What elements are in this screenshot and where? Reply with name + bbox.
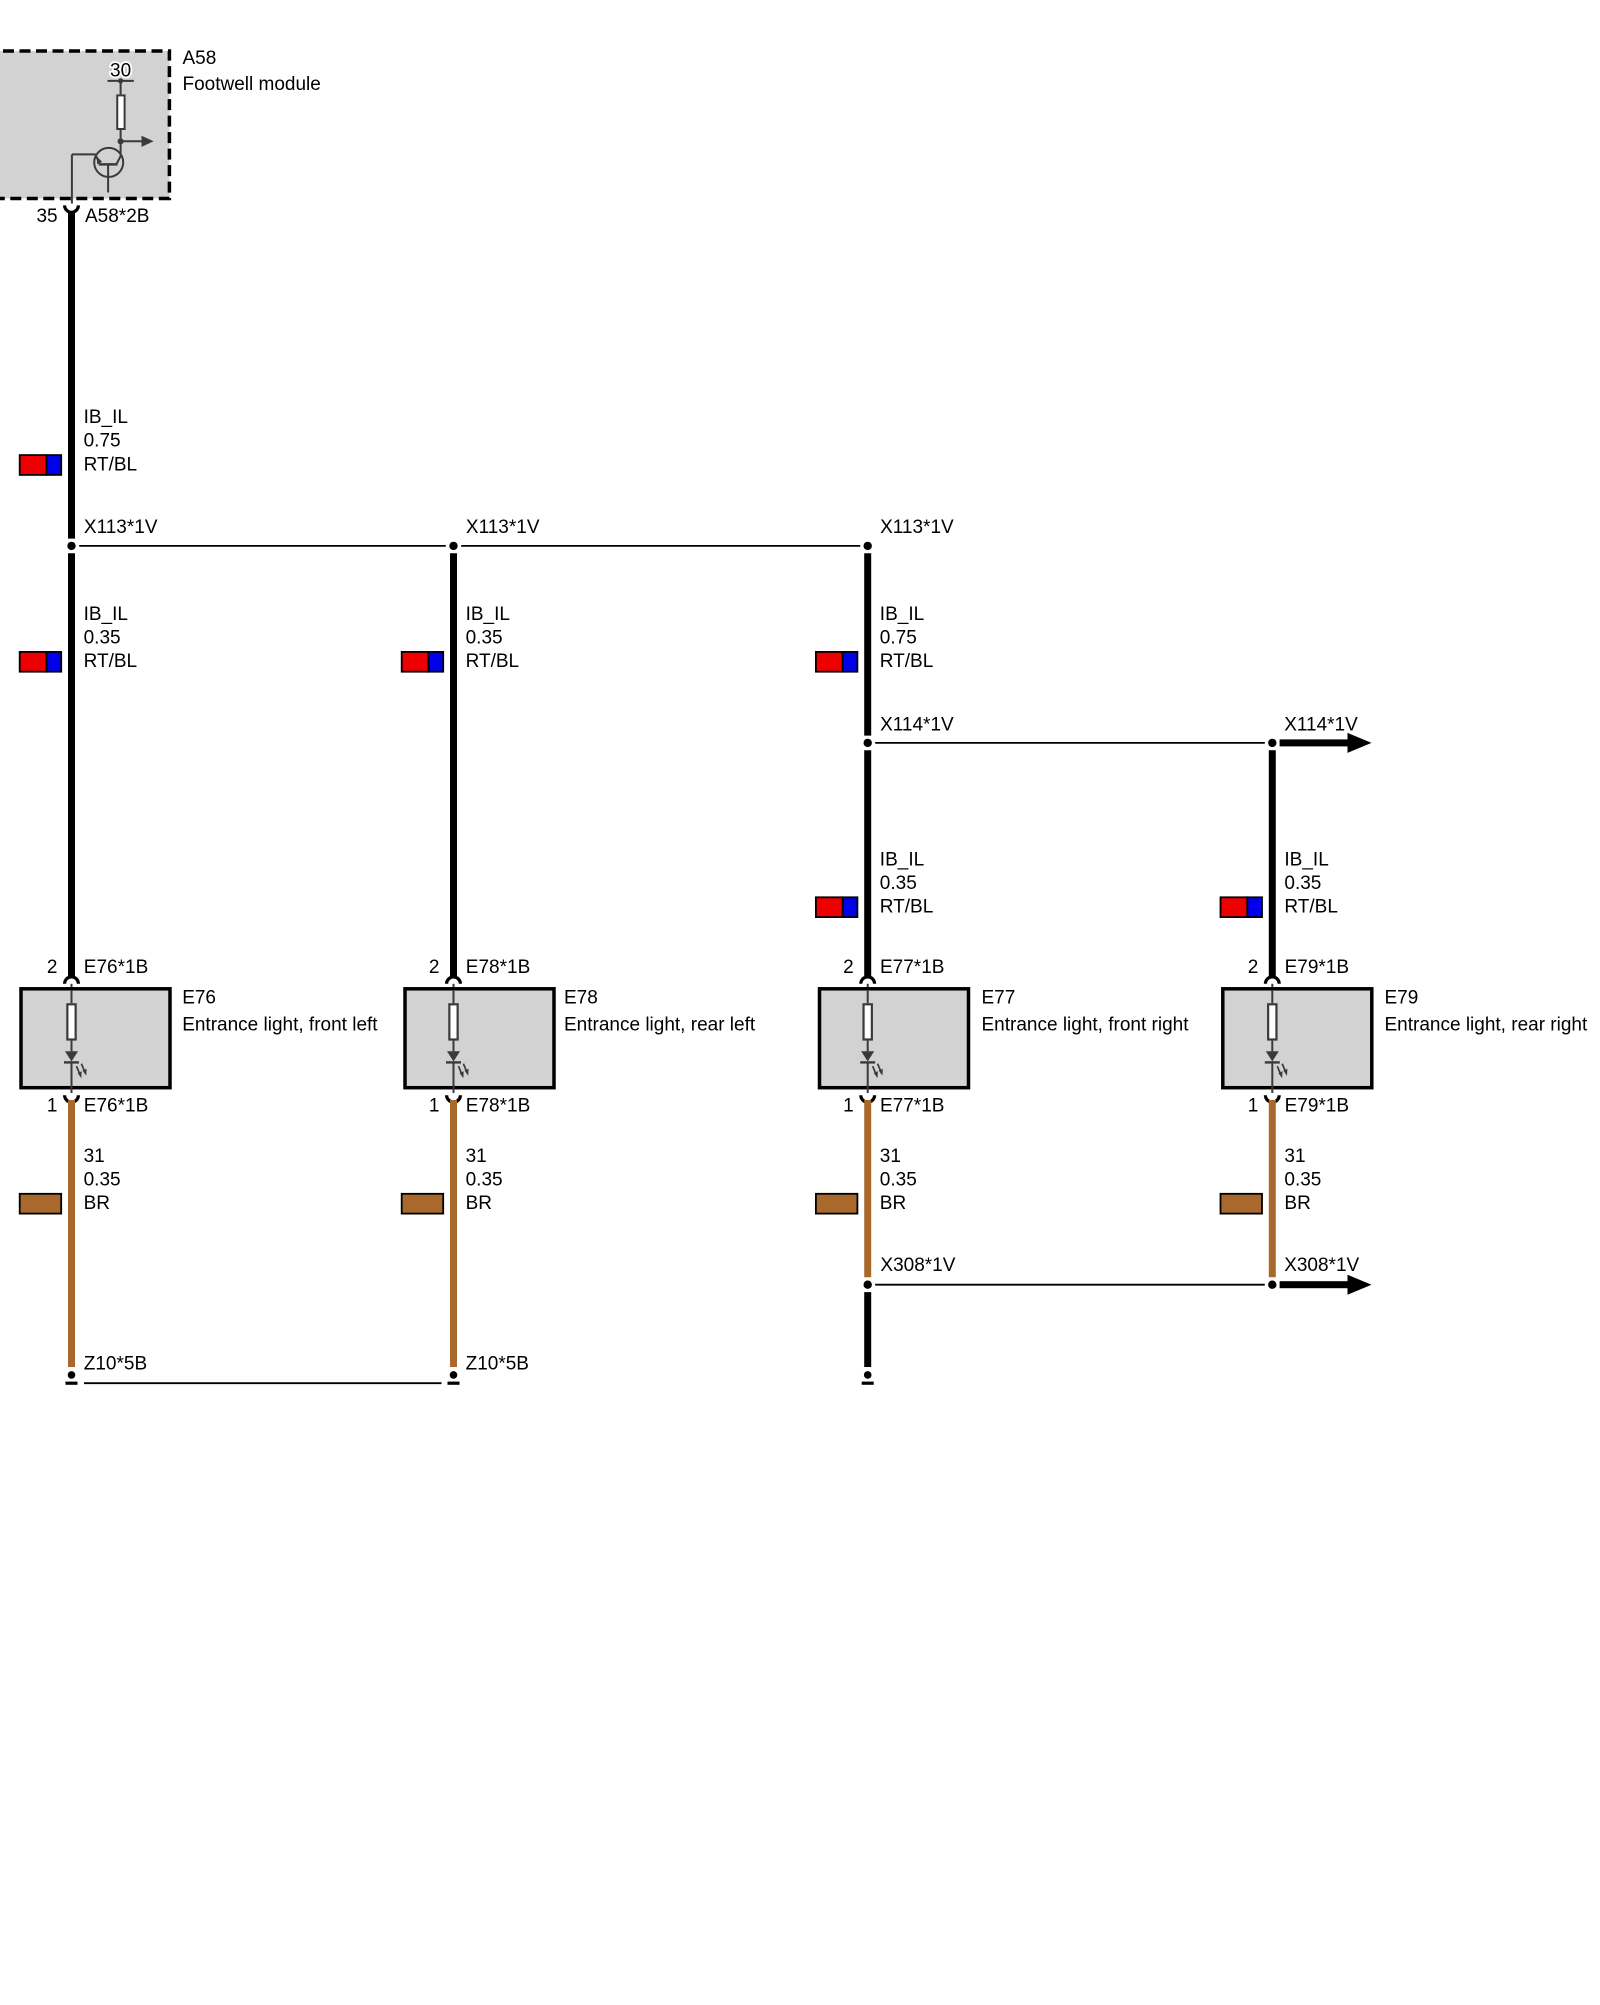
continuation arrow X114*1V [1280, 739, 1349, 746]
module A58 Footwell module (dashed box) [0, 48, 321, 199]
wire value label 31 0.35 BR [466, 1146, 503, 1214]
node X308*1V junction col3 [864, 1255, 956, 1289]
svg-text:E76*1B: E76*1B [84, 957, 148, 978]
svg-text:RT/BL: RT/BL [84, 651, 138, 672]
transistor Q1 in A58 [94, 148, 123, 193]
wire IB_IL 0.35 RT/BL X113 to E78 pin2 [450, 553, 457, 977]
svg-text:IB_IL: IB_IL [880, 849, 924, 870]
light emission rays of E77 [873, 1064, 883, 1079]
svg-text:0.35: 0.35 [1284, 1169, 1321, 1190]
svg-text:RT/BL: RT/BL [84, 454, 138, 475]
wire color chip RT/BL (col2) [402, 652, 429, 672]
wire value label IB_IL 0.75 RT/BL (col3 upper) [880, 604, 934, 672]
svg-text:1: 1 [843, 1095, 854, 1116]
svg-text:E79*1B: E79*1B [1285, 1095, 1349, 1116]
svg-text:X113*1V: X113*1V [84, 517, 158, 538]
connector E78*1B pin 2 socket [429, 957, 530, 989]
junction node inside A58 [118, 138, 124, 144]
wire 31 0.35 BR from E77 pin1 (brown) [864, 1100, 871, 1277]
svg-text:35: 35 [36, 206, 57, 227]
lamp E77 Entrance light, front right [820, 987, 1190, 1087]
svg-text:2: 2 [843, 957, 854, 978]
wire value label IB_IL 0.35 RT/BL (col2) [466, 604, 520, 672]
wire value label IB_IL 0.35 RT/BL (col3 lower) [880, 849, 934, 917]
node X308*1V junction col4 [1268, 1255, 1359, 1289]
wire value label 31 0.35 BR [84, 1146, 121, 1214]
wire value label 31 0.35 BR [880, 1146, 917, 1214]
svg-text:X114*1V: X114*1V [880, 714, 954, 735]
connector E77*1B pin 1 socket [843, 1095, 944, 1116]
svg-text:BR: BR [1284, 1193, 1310, 1214]
light emission rays of E78 [459, 1064, 469, 1079]
bulb filament resistor inside E77 [864, 990, 872, 1040]
svg-text:31: 31 [466, 1146, 487, 1167]
svg-text:E79: E79 [1385, 987, 1419, 1008]
LED diode inside E79 [1265, 1041, 1280, 1093]
wire 31 0.35 BR from E76 pin1 (brown) [68, 1100, 75, 1367]
svg-text:0.75: 0.75 [880, 628, 917, 649]
svg-text:E76*1B: E76*1B [84, 1095, 148, 1116]
light emission rays of E76 [77, 1064, 87, 1079]
wire 31 0.35 BR from E79 pin1 (brown) [1269, 1100, 1276, 1277]
wire color chip RT/BL (col3 lower) [816, 897, 843, 917]
svg-text:Entrance light, rear right: Entrance light, rear right [1385, 1014, 1588, 1035]
svg-text:X114*1V: X114*1V [1284, 714, 1358, 735]
svg-text:E77*1B: E77*1B [880, 957, 944, 978]
svg-text:X113*1V: X113*1V [880, 517, 954, 538]
bulb filament resistor inside E78 [449, 990, 457, 1040]
wire color chip BR [20, 1194, 62, 1214]
svg-text:0.35: 0.35 [84, 1169, 121, 1190]
lamp E78 Entrance light, rear left [405, 987, 756, 1087]
svg-text:BR: BR [880, 1193, 906, 1214]
wire color chip RT/BL (col1 upper) [20, 455, 47, 475]
svg-text:2: 2 [429, 957, 440, 978]
svg-text:31: 31 [880, 1146, 901, 1167]
bulb filament resistor inside E79 [1268, 990, 1276, 1040]
svg-text:RT/BL: RT/BL [880, 897, 934, 918]
wire color chip RT/BL (col3 upper) [816, 652, 843, 672]
ground splice Z10*5B col2 [448, 1353, 529, 1383]
svg-text:0.35: 0.35 [466, 1169, 503, 1190]
svg-text:0.35: 0.35 [84, 628, 121, 649]
wire color chip RT/BL (col4) [1221, 897, 1248, 917]
lamp E79 Entrance light, rear right [1223, 987, 1588, 1087]
wire value label IB_IL 0.35 RT/BL (col1 lower) [84, 604, 138, 672]
connector E77*1B pin 2 socket [843, 957, 944, 989]
continuation arrow X308*1V [1280, 1281, 1349, 1288]
ground splice Z10*5B col1 [66, 1353, 148, 1383]
svg-text:2: 2 [1248, 957, 1259, 978]
ground splice (col3, unlabeled) [862, 1371, 874, 1383]
wire between Z10*5B splices [84, 1382, 442, 1384]
internal output arrow of A58 [123, 136, 154, 147]
wire IB_IL 0.75 RT/BL X113 to X114 (col3) [864, 553, 871, 735]
connector A58*2B pin 35 socket [36, 205, 149, 227]
svg-text:IB_IL: IB_IL [1284, 849, 1328, 870]
wire X113*1V bus (thin horizontal) [79, 545, 860, 547]
node X114*1V junction col3 [864, 714, 955, 747]
node X114*1V junction col4 [1268, 714, 1358, 747]
svg-text:E78: E78 [564, 987, 598, 1008]
node X113*1V junction col1 [67, 517, 158, 550]
svg-text:E78*1B: E78*1B [466, 957, 530, 978]
wire resistor to transistor collector [120, 130, 122, 157]
svg-text:E78*1B: E78*1B [466, 1095, 530, 1116]
wire value label 31 0.35 BR [1284, 1146, 1321, 1214]
connector E79*1B pin 1 socket [1248, 1095, 1349, 1116]
svg-text:Z10*5B: Z10*5B [466, 1353, 529, 1374]
wire IB_IL 0.35 RT/BL X114 to E79 pin2 [1269, 750, 1276, 977]
svg-text:RT/BL: RT/BL [1284, 897, 1338, 918]
svg-text:RT/BL: RT/BL [880, 651, 934, 672]
svg-text:BR: BR [466, 1193, 492, 1214]
svg-text:1: 1 [47, 1095, 58, 1116]
connector E79*1B pin 2 socket [1248, 957, 1349, 989]
svg-text:1: 1 [1248, 1095, 1259, 1116]
wire value label IB_IL 0.35 RT/BL (col4) [1284, 849, 1338, 917]
node X113*1V junction col3 [864, 517, 955, 550]
wire IB_IL 0.35 RT/BL X113 to E76 pin2 [68, 553, 75, 977]
lamp E76 Entrance light, front left [21, 987, 378, 1087]
wire IB_IL 0.35 RT/BL X114 to E77 pin2 [864, 750, 871, 977]
svg-text:RT/BL: RT/BL [466, 651, 520, 672]
svg-text:31: 31 [84, 1146, 105, 1167]
pin 30 terminal of A58 [108, 61, 134, 95]
wire X308*1V bus (thin horizontal) [875, 1284, 1265, 1286]
svg-text:X113*1V: X113*1V [466, 517, 540, 538]
wire X308 to ground splice (col3) [864, 1292, 871, 1367]
svg-text:31: 31 [1284, 1146, 1305, 1167]
svg-text:0.35: 0.35 [466, 628, 503, 649]
connector E76*1B pin 2 socket [47, 957, 148, 989]
wire IB_IL 0.75 RT/BL from A58 pin35 to X113 [68, 211, 75, 538]
svg-text:A58*2B: A58*2B [85, 206, 149, 227]
svg-text:IB_IL: IB_IL [880, 604, 924, 625]
svg-text:E76: E76 [182, 987, 216, 1008]
wire emitter to pin 35 (internal) [72, 154, 96, 203]
resistor inside A58 [117, 95, 124, 129]
wire color chip RT/BL (col1 lower) [20, 652, 47, 672]
wire X114*1V bus (thin horizontal) [875, 742, 1265, 744]
connector E76*1B pin 1 socket [47, 1095, 148, 1116]
svg-text:X308*1V: X308*1V [880, 1255, 955, 1276]
LED diode inside E78 [446, 1041, 461, 1093]
svg-text:Z10*5B: Z10*5B [84, 1353, 147, 1374]
svg-text:Entrance light, front right: Entrance light, front right [982, 1014, 1190, 1035]
bulb filament resistor inside E76 [67, 990, 75, 1040]
svg-text:Entrance light, rear left: Entrance light, rear left [564, 1014, 756, 1035]
svg-text:0.35: 0.35 [1284, 873, 1321, 894]
LED diode inside E76 [64, 1041, 79, 1093]
light emission rays of E79 [1277, 1064, 1287, 1079]
LED diode inside E77 [860, 1041, 875, 1093]
svg-text:0.35: 0.35 [880, 873, 917, 894]
node X113*1V junction col2 [449, 517, 540, 550]
svg-text:X308*1V: X308*1V [1284, 1255, 1359, 1276]
wire color chip BR [402, 1194, 444, 1214]
svg-text:IB_IL: IB_IL [84, 407, 128, 428]
svg-text:Footwell module: Footwell module [183, 74, 321, 95]
svg-text:Entrance light, front left: Entrance light, front left [182, 1014, 378, 1035]
svg-text:0.75: 0.75 [84, 431, 121, 452]
svg-text:A58: A58 [183, 48, 217, 69]
svg-text:E77*1B: E77*1B [880, 1095, 944, 1116]
connector E78*1B pin 1 socket [429, 1095, 530, 1116]
svg-text:2: 2 [47, 957, 58, 978]
wire color chip BR [1221, 1194, 1263, 1214]
wire value label IB_IL 0.75 RT/BL (col1 upper) [84, 407, 138, 475]
wire color chip BR [816, 1194, 858, 1214]
svg-text:IB_IL: IB_IL [84, 604, 128, 625]
svg-text:0.35: 0.35 [880, 1169, 917, 1190]
svg-text:IB_IL: IB_IL [466, 604, 510, 625]
svg-text:BR: BR [84, 1193, 110, 1214]
svg-text:E79*1B: E79*1B [1285, 957, 1349, 978]
svg-text:1: 1 [429, 1095, 440, 1116]
svg-text:E77: E77 [982, 987, 1016, 1008]
wire 31 0.35 BR from E78 pin1 (brown) [450, 1100, 457, 1367]
